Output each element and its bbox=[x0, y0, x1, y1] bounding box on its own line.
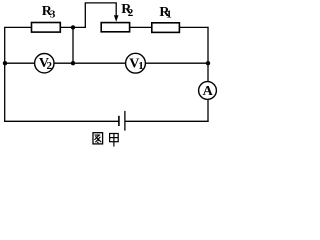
svg-text:1: 1 bbox=[138, 60, 144, 72]
node left edge V2 row bbox=[3, 61, 7, 65]
wire right vertical lower bbox=[207, 99, 209, 122]
wire right vertical upper bbox=[207, 27, 209, 64]
wire R3 to riser bbox=[61, 26, 86, 28]
wire R1 to right corner bbox=[179, 26, 208, 28]
svg-text:2: 2 bbox=[128, 7, 134, 19]
wire V1 to right node bbox=[145, 62, 208, 64]
ammeter A bbox=[199, 82, 217, 100]
voltmeter V1 bbox=[126, 53, 146, 73]
wire wiper arrow stem bbox=[115, 3, 117, 16]
voltmeter V2 bbox=[35, 54, 54, 73]
battery cell bbox=[119, 111, 125, 131]
resistor R3 bbox=[32, 23, 61, 33]
resistor R1 bbox=[152, 23, 180, 33]
label 甲 (figure caption) bbox=[110, 133, 119, 147]
wire left vertical bbox=[4, 27, 6, 122]
wire bottom right segment bbox=[125, 120, 208, 122]
node junction right of R3 bbox=[71, 25, 75, 29]
wire bottom left segment bbox=[4, 120, 118, 122]
wire branch down from R3 junction bbox=[72, 27, 74, 63]
wire R2 to R1 bbox=[130, 26, 152, 28]
wire top horizontal bbox=[85, 2, 117, 4]
wiper arrowhead bbox=[114, 15, 119, 22]
wire V2 to middle node bbox=[54, 62, 73, 64]
svg-text:1: 1 bbox=[166, 8, 172, 20]
wire left to V2 bbox=[5, 62, 35, 64]
wire node to V1 bbox=[73, 62, 126, 64]
wire right vertical middle bbox=[207, 63, 209, 82]
label 图 (figure caption) bbox=[93, 133, 103, 144]
svg-text:2: 2 bbox=[47, 60, 53, 72]
wire riser to top bbox=[84, 3, 86, 28]
node middle of voltmeter row bbox=[71, 61, 75, 65]
svg-text:3: 3 bbox=[50, 8, 56, 20]
node right edge V row bbox=[206, 61, 210, 65]
wire top-left horizontal bbox=[4, 26, 31, 28]
svg-text:A: A bbox=[203, 84, 214, 99]
rheostat R2 bbox=[101, 23, 129, 32]
